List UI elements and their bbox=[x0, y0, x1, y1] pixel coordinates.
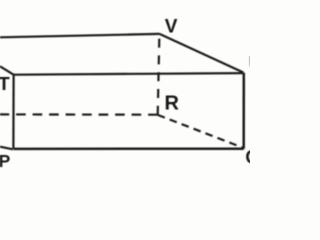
cuboid diagram PQRSTUVW, cropped at left and right bbox=[0, 0, 250, 187]
svg-text:U: U bbox=[248, 53, 250, 73]
svg-text:T: T bbox=[0, 73, 10, 94]
edge PQ (front bottom) bbox=[13, 147, 243, 150]
svg-text:P: P bbox=[0, 151, 11, 171]
svg-text:Q: Q bbox=[245, 147, 250, 167]
hidden edge SR (horizontal dashed, cut at left) bbox=[0, 113, 158, 115]
edge TP (front left vertical) bbox=[12, 75, 14, 149]
edge WT (top left receding, cut at left) bbox=[0, 66, 14, 74]
edge PS stub (bottom left overshoot, cut at left) bbox=[0, 147, 13, 150]
edge TU (front top) bbox=[14, 73, 244, 75]
svg-text:R: R bbox=[165, 92, 180, 114]
svg-text:V: V bbox=[165, 16, 178, 37]
edge VU (top right receding) bbox=[160, 34, 244, 73]
edge UQ (front right vertical) bbox=[242, 73, 245, 149]
hidden edge RQ (diagonal dashed) bbox=[158, 115, 243, 148]
hidden edge VR (vertical dashed) bbox=[158, 39, 160, 115]
edge WV (top back, cut at left) bbox=[0, 34, 160, 37]
